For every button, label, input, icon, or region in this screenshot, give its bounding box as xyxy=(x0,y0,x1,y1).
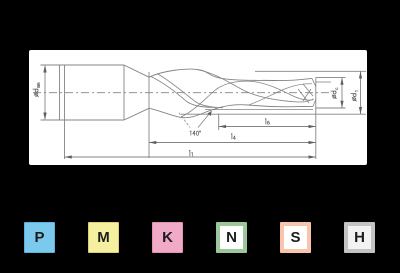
pilot step projection line xyxy=(316,81,331,83)
ISO material icon S xyxy=(280,222,311,253)
shank rectangle xyxy=(41,65,125,120)
arrowheads: d1 dimension xyxy=(359,71,362,78)
flute body bottom edge xyxy=(149,105,313,118)
label dmm (rotated, reads upward) xyxy=(33,83,40,97)
spiral flute curve 1 xyxy=(151,77,216,108)
tip cutting edges xyxy=(298,78,316,106)
ISO material icon K xyxy=(152,222,183,253)
ISO material icon P xyxy=(24,222,55,253)
label 140 degrees xyxy=(189,131,192,135)
d1 extension lines xyxy=(181,71,366,114)
label l4 xyxy=(230,134,233,140)
spiral flute curve 3 xyxy=(197,70,314,102)
extra flute scratch curves xyxy=(249,82,314,105)
shank diameter dimension line dmm xyxy=(44,66,46,119)
arrowheads: dc dimension xyxy=(340,78,343,85)
arrowheads: dmm dimension xyxy=(43,65,46,73)
d1 dimension line xyxy=(360,71,362,114)
centerline (dash-dot axis) xyxy=(33,92,331,94)
flute start vertical + extension down xyxy=(148,72,150,158)
label l6 xyxy=(264,119,267,125)
l4 dimension line xyxy=(149,142,316,144)
ISO material icon N xyxy=(216,222,247,253)
spiral flute curve 4 (crossing up) xyxy=(181,81,253,117)
arrowheads: l4 xyxy=(149,141,156,144)
label l1 xyxy=(188,150,191,156)
label dc (rotated) xyxy=(331,88,338,99)
label d1 (rotated) xyxy=(351,91,358,101)
spiral flute curve 2 xyxy=(157,74,223,108)
flute body top edge xyxy=(149,69,312,80)
l6 extension + dimension line xyxy=(219,114,316,130)
angle leader arrow line xyxy=(198,111,212,128)
ISO material icon M xyxy=(88,222,119,253)
l1 extension + dimension line xyxy=(65,120,316,159)
arrowheads: l1 xyxy=(65,155,72,158)
dc extension lines xyxy=(316,78,346,108)
arrowhead: angle leader xyxy=(207,111,211,116)
white drawing panel xyxy=(29,50,367,165)
tip face vertical extension xyxy=(315,78,317,160)
taper cone xyxy=(124,65,149,120)
angle leader dashes xyxy=(179,113,190,128)
ISO material icon H xyxy=(344,222,375,253)
arrowheads: l6 xyxy=(219,125,226,128)
dc dimension line xyxy=(341,78,343,108)
flute land lower edge line xyxy=(205,109,313,111)
